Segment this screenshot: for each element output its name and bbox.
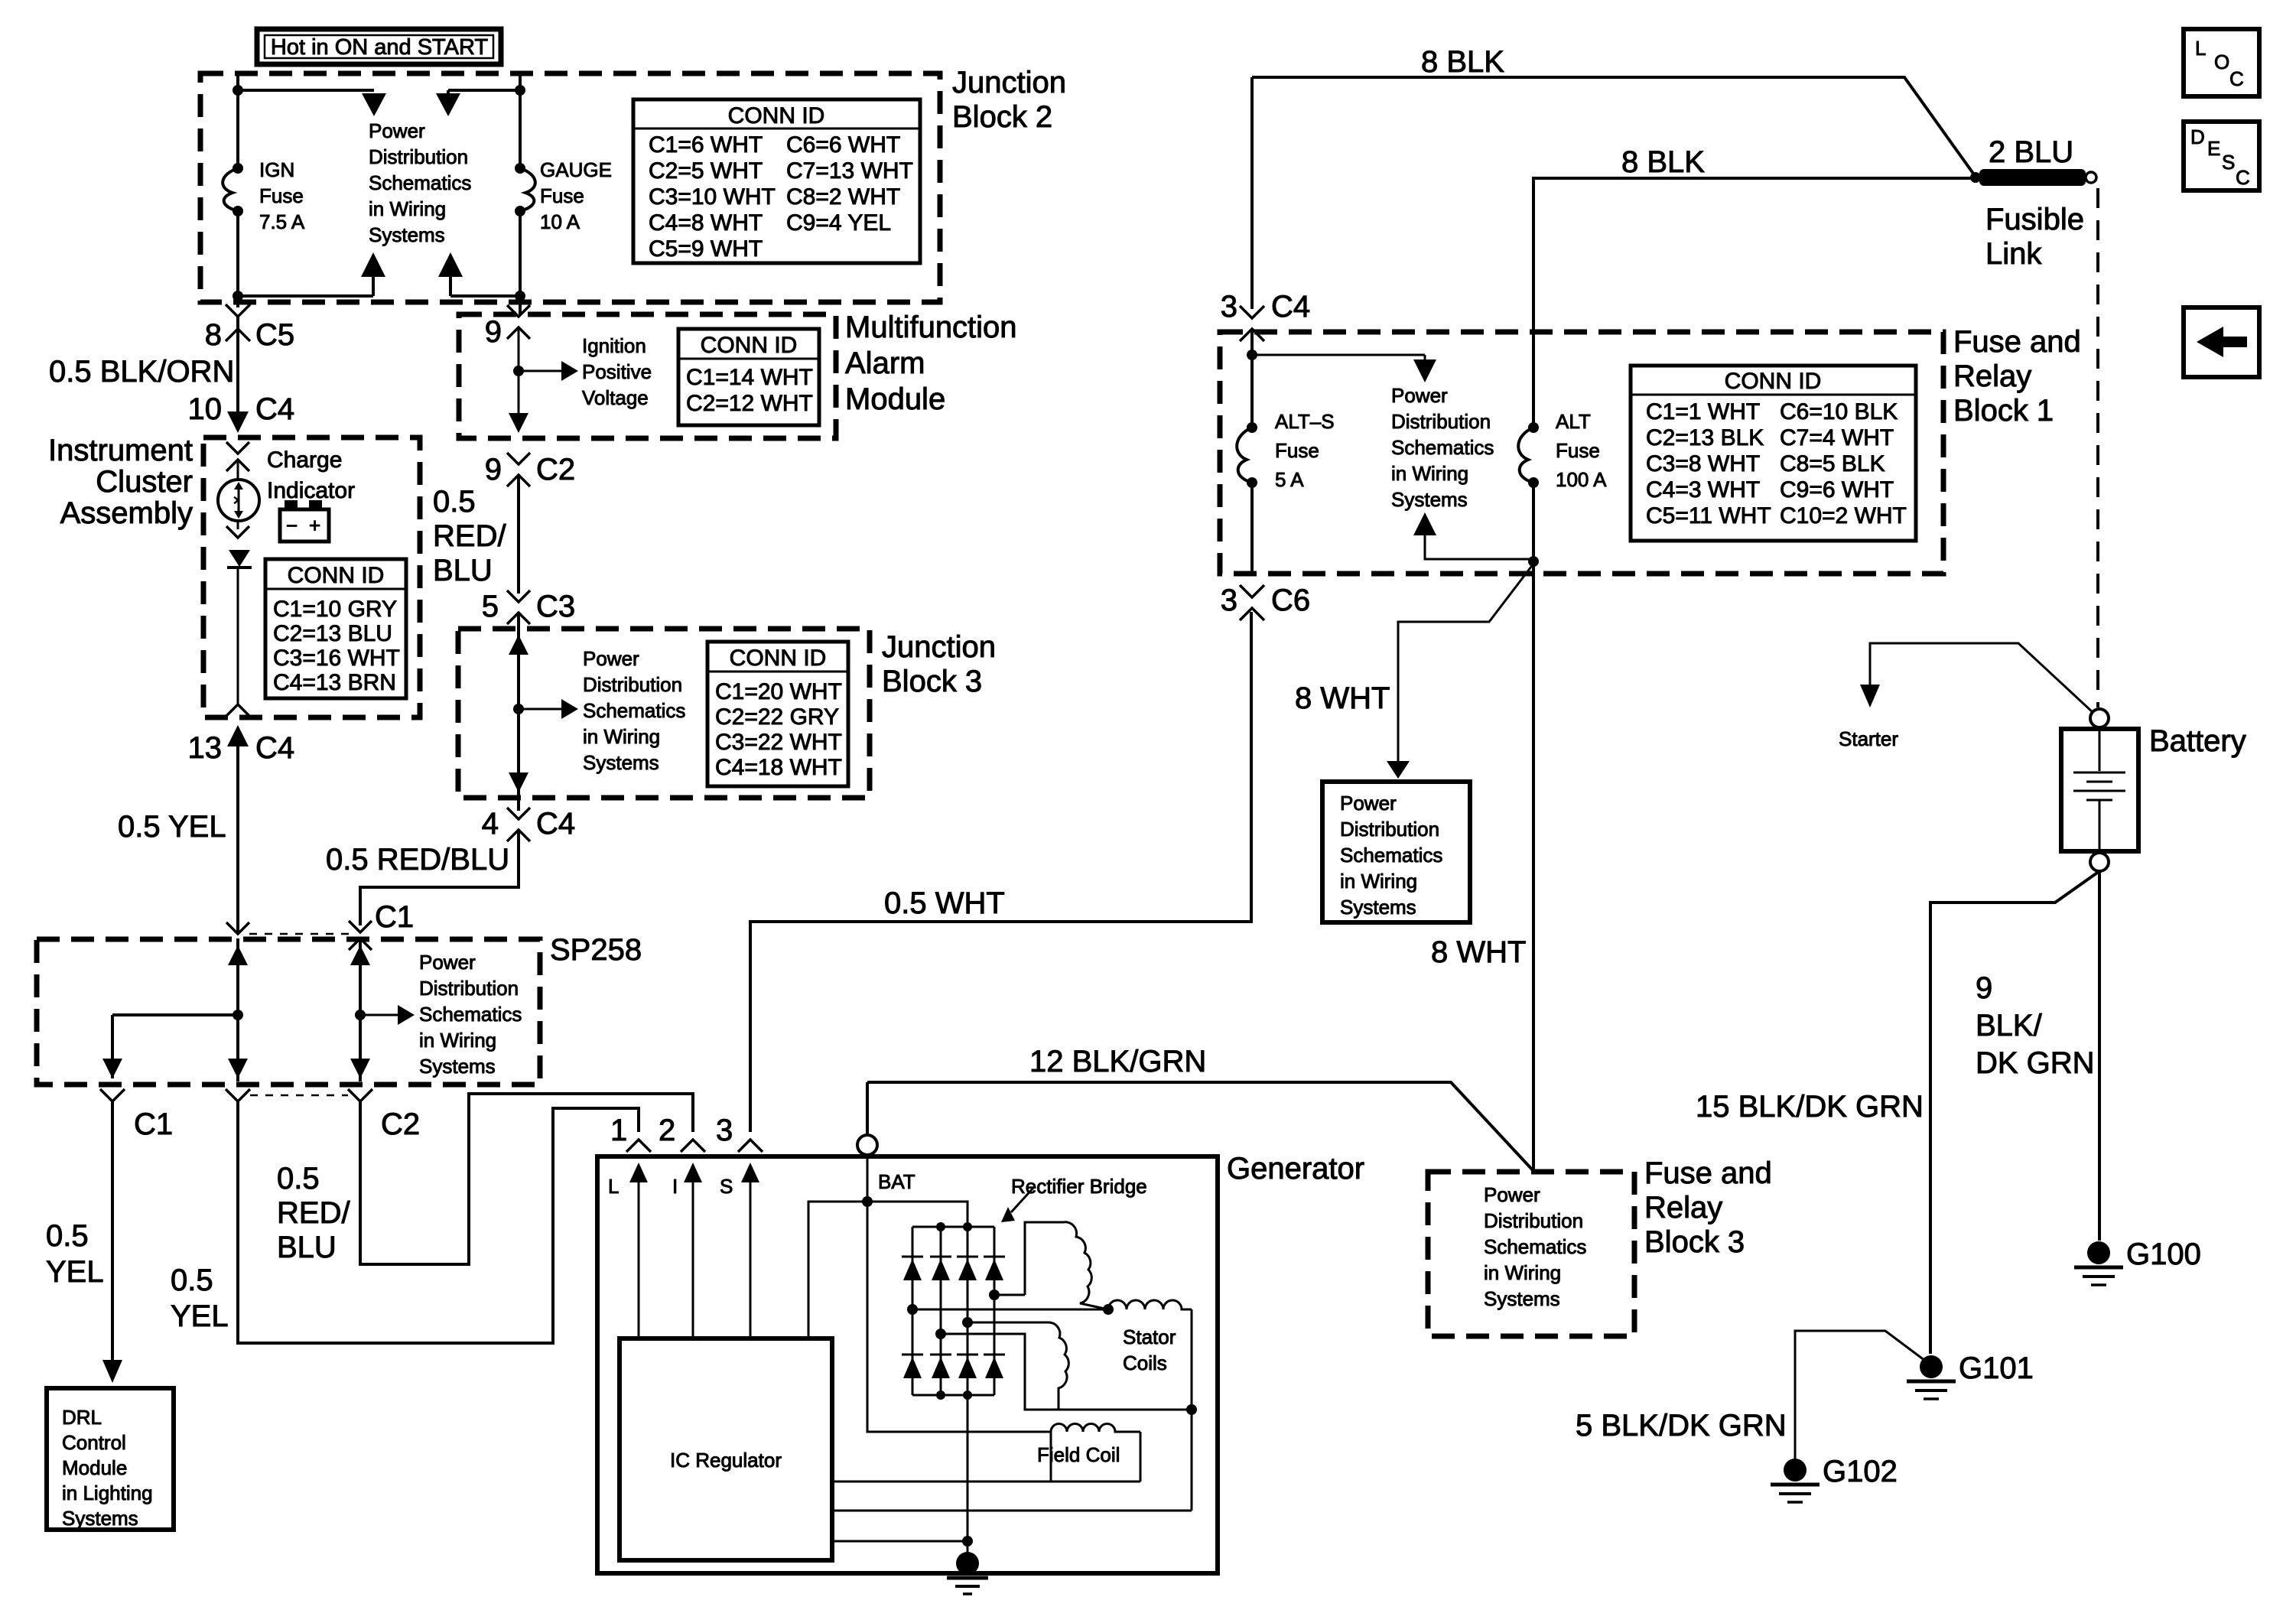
svg-text:BLK/: BLK/ [1976, 1009, 2043, 1042]
svg-text:Systems: Systems [419, 1055, 496, 1078]
svg-text:Fuse: Fuse [1556, 439, 1600, 462]
wire return from power distribution (left) [238, 294, 373, 298]
label power distribution schematics (SP258) [419, 951, 522, 1078]
wire return from power distribution (right) [450, 294, 520, 298]
fuse and relay block 3 dashed box [1428, 1172, 1634, 1336]
svg-text:C3=22 WHT: C3=22 WHT [715, 730, 842, 755]
svg-text:5 A: 5 A [1275, 468, 1304, 491]
svg-text:CONN ID: CONN ID [1725, 369, 1822, 394]
splice SP258 dashed box [37, 939, 540, 1085]
wire GAUGE fuse to bottom [519, 211, 522, 314]
wire 0.5 RED/BLU down to SP258 C1 [360, 830, 519, 925]
wire ALT-S fuse down [1250, 483, 1254, 574]
connector 3 C4 [1221, 290, 1310, 341]
svg-text:GAUGE: GAUGE [540, 158, 612, 181]
label power distribution schematics (FRB3) [1484, 1183, 1586, 1310]
svg-text:C4: C4 [255, 731, 294, 765]
svg-text:Distribution: Distribution [1340, 818, 1439, 841]
svg-text:Ignition: Ignition [582, 334, 646, 357]
svg-text:10 A: 10 A [540, 210, 581, 233]
svg-text:Distribution: Distribution [583, 673, 682, 696]
wire starter branch [1839, 643, 2093, 750]
svg-text:C2=22 GRY: C2=22 GRY [715, 704, 839, 730]
svg-text:0.5 WHT: 0.5 WHT [884, 886, 1005, 920]
svg-text:Power: Power [1391, 384, 1448, 407]
svg-text:ALT: ALT [1556, 410, 1591, 433]
svg-text:in Wiring: in Wiring [419, 1029, 496, 1052]
instrument cluster assembly dashed box [203, 437, 420, 717]
svg-text:Module: Module [62, 1456, 127, 1479]
junction block 2 dashed box [200, 73, 940, 302]
wire 8 WHT branch to power dist box [1398, 564, 1533, 765]
svg-text:−: − [286, 514, 298, 537]
svg-text:Fuse and: Fuse and [1953, 325, 2081, 359]
node junction dot SP258 main [233, 1010, 243, 1020]
lamp charge indicator [218, 480, 259, 521]
svg-text:2: 2 [659, 1114, 675, 1147]
svg-text:DK GRN: DK GRN [1976, 1046, 2095, 1080]
svg-text:Multifunction: Multifunction [845, 311, 1017, 344]
svg-text:D: D [2190, 125, 2205, 148]
svg-text:Field Coil: Field Coil [1037, 1443, 1120, 1466]
svg-text:Stator: Stator [1123, 1325, 1176, 1348]
svg-text:C: C [2229, 67, 2244, 90]
connector C1 below SP258 [100, 1089, 173, 1141]
connector at SP258 top (main wire) [226, 922, 249, 934]
svg-text:Instrument: Instrument [48, 434, 193, 467]
svg-text:C9=6 WHT: C9=6 WHT [1780, 477, 1894, 503]
wire 0.5 BLK/ORN [236, 317, 239, 417]
wire 8 BLK (upper) [1252, 77, 1976, 177]
svg-text:Block 3: Block 3 [1644, 1225, 1745, 1259]
svg-text:G100: G100 [2126, 1238, 2201, 1271]
wire ALT fuse vertical [1532, 306, 1535, 428]
svg-text:in Wiring: in Wiring [1340, 870, 1417, 893]
svg-text:C4: C4 [255, 392, 294, 426]
svg-text:Power: Power [583, 647, 639, 670]
svg-text:S: S [720, 1175, 733, 1198]
svg-text:C2: C2 [381, 1107, 420, 1141]
svg-text:Indicator: Indicator [267, 478, 355, 503]
connector 13 C4 [188, 725, 295, 765]
svg-text:8 WHT: 8 WHT [1295, 681, 1390, 715]
node junction dot GAUGE top [515, 85, 525, 96]
svg-text:Systems: Systems [369, 223, 445, 246]
wire ignition positive voltage [518, 327, 520, 419]
connector 4 C4 [482, 807, 575, 841]
label 0.5 RED/BLU (stack) [277, 1162, 350, 1264]
svg-text:BLU: BLU [433, 554, 493, 587]
svg-text:C6=6 WHT: C6=6 WHT [786, 132, 900, 158]
label 0.5 RED/BLU (vertical stack) [433, 485, 506, 587]
wire 0.5 YEL to DRL module [111, 1101, 114, 1377]
svg-text:Junction: Junction [882, 630, 996, 664]
fuse GAUGE 10A [515, 158, 612, 233]
svg-text:C2=12 WHT: C2=12 WHT [686, 391, 813, 416]
svg-text:Distribution: Distribution [369, 145, 468, 168]
fuse and relay block 1 dashed box [1220, 332, 1943, 574]
svg-text:SP258: SP258 [550, 933, 642, 967]
svg-text:Power: Power [369, 119, 425, 142]
field coil [1037, 1424, 1140, 1482]
legend box back-arrow [2184, 307, 2259, 377]
wire GAUGE feed vertical [519, 73, 522, 169]
svg-text:C5=11 WHT: C5=11 WHT [1646, 503, 1771, 529]
svg-text:3: 3 [1221, 584, 1237, 617]
wire 0.5 YEL to generator L [238, 1101, 639, 1343]
fuse IGN 7.5A [223, 158, 305, 233]
wire 0.5 RED/BLU (MFAM to JB3) [517, 475, 520, 594]
terminal BAT [857, 1135, 915, 1193]
connector chevron below lamp [226, 526, 249, 538]
svg-text:IC Regulator: IC Regulator [670, 1449, 782, 1472]
svg-text:in Wiring: in Wiring [369, 197, 446, 220]
label Ignition Positive Voltage [582, 334, 652, 409]
svg-text:15 BLK/DK GRN: 15 BLK/DK GRN [1696, 1090, 1924, 1124]
svg-text:Power: Power [1484, 1183, 1540, 1206]
svg-text:C10=2 WHT: C10=2 WHT [1780, 503, 1907, 529]
svg-text:Fuse: Fuse [259, 184, 304, 207]
wire 8 BLK (lower) [1533, 178, 1971, 306]
svg-text:O: O [2214, 50, 2229, 73]
svg-text:Distribution: Distribution [1484, 1209, 1583, 1232]
svg-text:Rectifier Bridge: Rectifier Bridge [1011, 1175, 1147, 1198]
svg-text:Systems: Systems [1391, 488, 1468, 511]
svg-text:CONN ID: CONN ID [288, 563, 385, 588]
svg-text:C1=6 WHT: C1=6 WHT [649, 132, 763, 158]
ground G102 [1771, 1455, 1898, 1502]
wire dashed battery feed [2096, 188, 2099, 707]
svg-text:9: 9 [485, 453, 502, 486]
svg-text:BAT: BAT [878, 1170, 915, 1193]
junction block 3 dashed box [458, 629, 870, 798]
wire main through SP258 [236, 938, 239, 1081]
svg-text:C6: C6 [1271, 584, 1310, 617]
svg-text:Systems: Systems [1340, 896, 1416, 919]
table CONN ID junction block 3 [707, 642, 848, 786]
svg-text:+: + [309, 514, 320, 537]
icon battery (charge indicator) [280, 500, 329, 542]
svg-text:0.5: 0.5 [46, 1219, 89, 1253]
connector 5 C3 [482, 590, 575, 624]
svg-text:0.5: 0.5 [277, 1162, 320, 1195]
svg-text:8 BLK: 8 BLK [1621, 145, 1705, 179]
pin I arrow and wire [672, 1163, 702, 1338]
wire 15 BLK/DK GRN to G101 [1930, 871, 2099, 1354]
svg-text:Module: Module [845, 382, 945, 416]
label power distribution schematics (FRB1) [1391, 384, 1494, 511]
wire 9 BLK/DK GRN to G100 [2098, 871, 2101, 1241]
node junction dot GAUGE bottom [515, 291, 525, 301]
svg-text:C4=8 WHT: C4=8 WHT [649, 210, 763, 236]
svg-text:C4=3 WHT: C4=3 WHT [1646, 477, 1760, 503]
svg-text:DRL: DRL [62, 1406, 102, 1429]
box power distribution schematics (solid) [1322, 782, 1470, 922]
svg-text:Fuse: Fuse [1275, 439, 1319, 462]
svg-text:C8=5 BLK: C8=5 BLK [1780, 451, 1885, 476]
svg-text:C9=4 YEL: C9=4 YEL [786, 210, 891, 236]
svg-text:C4: C4 [1271, 290, 1310, 324]
svg-text:G102: G102 [1823, 1455, 1898, 1488]
wire BAT riser [866, 1082, 869, 1135]
svg-text:C1: C1 [375, 900, 414, 934]
svg-text:BLU: BLU [277, 1231, 337, 1264]
svg-text:Battery: Battery [2149, 724, 2246, 758]
wire into ALT-S fuse [1250, 329, 1254, 428]
svg-text:C3=10 WHT: C3=10 WHT [649, 184, 776, 210]
connector at cluster top [226, 442, 249, 454]
svg-text:4: 4 [482, 807, 499, 841]
pin S arrow and wire [720, 1163, 759, 1338]
svg-text:C5: C5 [255, 318, 294, 352]
wire 5 BLK/DK GRN to G102 [1795, 1331, 1925, 1459]
svg-text:C1=10 GRY: C1=10 GRY [273, 597, 397, 622]
wire through junction block 3 [517, 613, 520, 811]
wire rectifier center to ground [967, 1395, 969, 1562]
svg-text:C4=13 BRN: C4=13 BRN [273, 670, 396, 695]
svg-text:Positive: Positive [582, 360, 652, 383]
svg-text:C2=13 BLK: C2=13 BLK [1646, 425, 1764, 450]
svg-text:Fuse and: Fuse and [1644, 1156, 1772, 1190]
svg-text:C1=14 WHT: C1=14 WHT [686, 365, 813, 390]
svg-text:C7=13 WHT: C7=13 WHT [786, 158, 913, 184]
svg-text:C3: C3 [536, 590, 575, 623]
stator coils [907, 1222, 1197, 1511]
label 9 BLK/DK GRN [1976, 971, 2095, 1080]
svg-text:2 BLU: 2 BLU [1989, 135, 2073, 169]
svg-text:Systems: Systems [1484, 1287, 1560, 1310]
svg-text:C7=4 WHT: C7=4 WHT [1780, 425, 1894, 450]
svg-text:Fuse: Fuse [540, 184, 584, 207]
svg-text:C2=5 WHT: C2=5 WHT [649, 158, 763, 184]
svg-text:Relay: Relay [1953, 359, 2031, 393]
node junction dot IGN bottom [233, 291, 243, 301]
svg-text:in Wiring: in Wiring [583, 725, 660, 748]
svg-text:IGN: IGN [259, 158, 294, 181]
svg-text:C2=13 BLU: C2=13 BLU [273, 621, 392, 646]
wire BAT to field coil [867, 1202, 1051, 1432]
wire BAT inside generator [867, 1155, 869, 1202]
svg-text:L: L [2195, 37, 2206, 60]
fuse ALT-S 5A [1237, 410, 1334, 491]
svg-text:C1=1 WHT: C1=1 WHT [1646, 399, 1760, 424]
svg-text:0.5 RED/BLU: 0.5 RED/BLU [326, 843, 509, 877]
svg-text:I: I [672, 1175, 678, 1198]
svg-text:Control: Control [62, 1431, 126, 1454]
label Rectifier Bridge with arrow [1001, 1175, 1147, 1222]
svg-text:Cluster: Cluster [96, 465, 193, 499]
svg-text:8: 8 [205, 318, 222, 352]
connector pin 1 [610, 1114, 651, 1152]
svg-text:RED/: RED/ [433, 519, 506, 553]
svg-text:Alarm: Alarm [845, 346, 925, 380]
svg-text:1: 1 [610, 1114, 627, 1147]
table CONN ID FRB1 [1631, 366, 1916, 541]
connector C2 below SP258 [348, 1089, 420, 1141]
svg-text:5 BLK/DK GRN: 5 BLK/DK GRN [1576, 1409, 1787, 1442]
connector pin 3 [716, 1114, 763, 1152]
svg-text:CONN ID: CONN ID [701, 333, 798, 358]
svg-text:L: L [608, 1175, 619, 1198]
svg-text:C3=16 WHT: C3=16 WHT [273, 646, 400, 671]
svg-text:13: 13 [188, 731, 223, 765]
ground (generator) [947, 1552, 988, 1594]
IC regulator box [620, 1338, 832, 1560]
svg-text:C4: C4 [536, 807, 575, 841]
svg-text:C: C [2236, 166, 2250, 189]
label power distribution schematics (JB3) [583, 647, 685, 774]
svg-text:8 WHT: 8 WHT [1431, 935, 1526, 969]
wire IGN feed vertical [236, 73, 239, 169]
svg-text:E: E [2207, 137, 2220, 160]
label power distribution schematics (JB2) [369, 119, 471, 246]
svg-text:Hot in ON and START: Hot in ON and START [271, 35, 488, 60]
diode symbol [227, 550, 252, 568]
svg-text:Schematics: Schematics [1340, 844, 1442, 867]
multifunction alarm module dashed box [459, 314, 836, 438]
legend box DESC [2184, 122, 2259, 190]
connector 10 C4 [188, 392, 295, 433]
legend box LOC [2184, 29, 2259, 96]
label 0.5 YEL (second) [171, 1264, 229, 1333]
wire BAT bus [808, 1202, 968, 1336]
wire to power distribution (right) [448, 89, 520, 92]
svg-text:9: 9 [1976, 971, 1992, 1005]
wire regulator to stator [832, 1510, 1192, 1512]
svg-text:Relay: Relay [1644, 1191, 1722, 1225]
svg-text:in Lighting: in Lighting [62, 1482, 153, 1504]
svg-text:C1=20 WHT: C1=20 WHT [715, 679, 842, 704]
svg-text:12 BLK/GRN: 12 BLK/GRN [1029, 1045, 1206, 1078]
svg-text:7.5 A: 7.5 A [259, 210, 305, 233]
svg-text:CONN ID: CONN ID [730, 646, 827, 671]
connector (middle, unlabeled) [226, 1089, 250, 1101]
pin L arrow and wire [608, 1163, 648, 1338]
svg-text:C1: C1 [134, 1107, 173, 1141]
svg-text:3: 3 [716, 1114, 733, 1147]
svg-text:Starter: Starter [1839, 727, 1898, 750]
connector 3 C6 [1221, 584, 1310, 620]
svg-text:Systems: Systems [583, 751, 659, 774]
svg-text:S: S [2222, 151, 2235, 174]
wire regulator to ground [832, 1540, 968, 1543]
svg-text:Assembly: Assembly [60, 496, 193, 530]
wire return arrow up [1413, 512, 1436, 535]
svg-text:Distribution: Distribution [1391, 410, 1491, 433]
svg-text:C5=9 WHT: C5=9 WHT [649, 236, 763, 262]
svg-text:in Wiring: in Wiring [1391, 462, 1468, 485]
svg-text:Junction: Junction [952, 66, 1066, 99]
svg-text:5: 5 [482, 590, 499, 623]
label box "Hot in ON and START" [257, 29, 501, 64]
ground G101 [1907, 1351, 2034, 1399]
table CONN ID instrument cluster [265, 559, 406, 698]
svg-text:RED/: RED/ [277, 1196, 350, 1230]
connector at cluster bottom [226, 704, 249, 716]
wire thin dashed connector line [249, 933, 349, 935]
svg-text:Power: Power [419, 951, 476, 974]
svg-text:0.5 BLK/ORN: 0.5 BLK/ORN [49, 355, 234, 389]
wire into charge indicator [237, 460, 239, 529]
connector 8 C5 [205, 304, 294, 352]
svg-text:Distribution: Distribution [419, 977, 519, 1000]
wire branch to C1 [112, 1013, 238, 1016]
svg-text:ALT–S: ALT–S [1275, 410, 1335, 433]
wire thin dashed connector line [250, 1094, 348, 1097]
wire C1 branch through SP258 [359, 938, 362, 1081]
svg-text:0.5: 0.5 [171, 1264, 213, 1297]
fuse ALT 100A [1518, 410, 1607, 491]
svg-text:0.5: 0.5 [433, 485, 476, 519]
wire to power distribution arrow [1252, 354, 1425, 356]
svg-text:Link: Link [1985, 237, 2042, 271]
svg-text:9: 9 [485, 315, 502, 349]
wire 0.5 RED/BLU to generator I [360, 1094, 693, 1264]
svg-text:G101: G101 [1959, 1351, 2034, 1385]
wire IGN fuse to bottom [236, 211, 239, 307]
svg-text:3: 3 [1221, 290, 1237, 324]
rectifier bridge [902, 1222, 1005, 1400]
svg-text:8 BLK: 8 BLK [1421, 45, 1504, 79]
connector 9 C2 [485, 453, 575, 486]
label 0.5 YEL (left) [46, 1219, 104, 1289]
svg-text:C3=8 WHT: C3=8 WHT [1646, 451, 1760, 476]
svg-text:Power: Power [1340, 792, 1397, 815]
svg-text:Schematics: Schematics [583, 699, 685, 722]
node junction dot IGN top [233, 85, 243, 96]
svg-text:Charge: Charge [267, 447, 342, 473]
connector pin 2 [659, 1114, 705, 1152]
wire to power distribution (left) [238, 89, 374, 92]
box DRL control module [47, 1388, 174, 1530]
table CONN ID MFAM [678, 329, 819, 425]
svg-text:YEL: YEL [171, 1299, 229, 1333]
svg-text:Systems: Systems [62, 1507, 138, 1530]
svg-text:10: 10 [188, 392, 223, 426]
wire diode to cluster bottom [237, 568, 239, 705]
battery [2061, 709, 2246, 871]
svg-text:Fusible: Fusible [1985, 203, 2084, 236]
svg-text:C2: C2 [536, 453, 575, 486]
connector 9 into MFAM [485, 305, 530, 349]
svg-text:in Wiring: in Wiring [1484, 1261, 1561, 1284]
svg-text:Block 1: Block 1 [1953, 394, 2054, 428]
svg-text:C8=2 WHT: C8=2 WHT [786, 184, 900, 210]
svg-text:YEL: YEL [46, 1255, 104, 1289]
svg-text:Schematics: Schematics [369, 171, 471, 194]
connector C1 at SP258 top [349, 900, 414, 950]
wire regulator to field coil [832, 1481, 1140, 1483]
generator box [597, 1156, 1218, 1573]
svg-text:Block 2: Block 2 [952, 100, 1052, 134]
svg-text:C6=10 BLK: C6=10 BLK [1780, 399, 1898, 424]
table CONN ID junction block 2 [633, 99, 920, 263]
svg-text:CONN ID: CONN ID [728, 103, 825, 128]
svg-text:Schematics: Schematics [1484, 1235, 1586, 1258]
svg-text:100 A: 100 A [1556, 468, 1607, 491]
svg-text:Coils: Coils [1123, 1351, 1167, 1374]
ground G100 [2074, 1238, 2201, 1285]
svg-text:Voltage: Voltage [582, 386, 649, 409]
wire down to 3 C4 [1250, 77, 1254, 309]
wire 12 BLK/GRN [867, 1082, 1533, 1171]
svg-text:Generator: Generator [1227, 1152, 1364, 1186]
svg-text:Schematics: Schematics [419, 1003, 522, 1026]
svg-text:0.5 YEL: 0.5 YEL [118, 810, 226, 844]
svg-text:Schematics: Schematics [1391, 436, 1494, 459]
node junction dot SP258 right [355, 1010, 366, 1020]
svg-text:Block 3: Block 3 [882, 665, 982, 698]
